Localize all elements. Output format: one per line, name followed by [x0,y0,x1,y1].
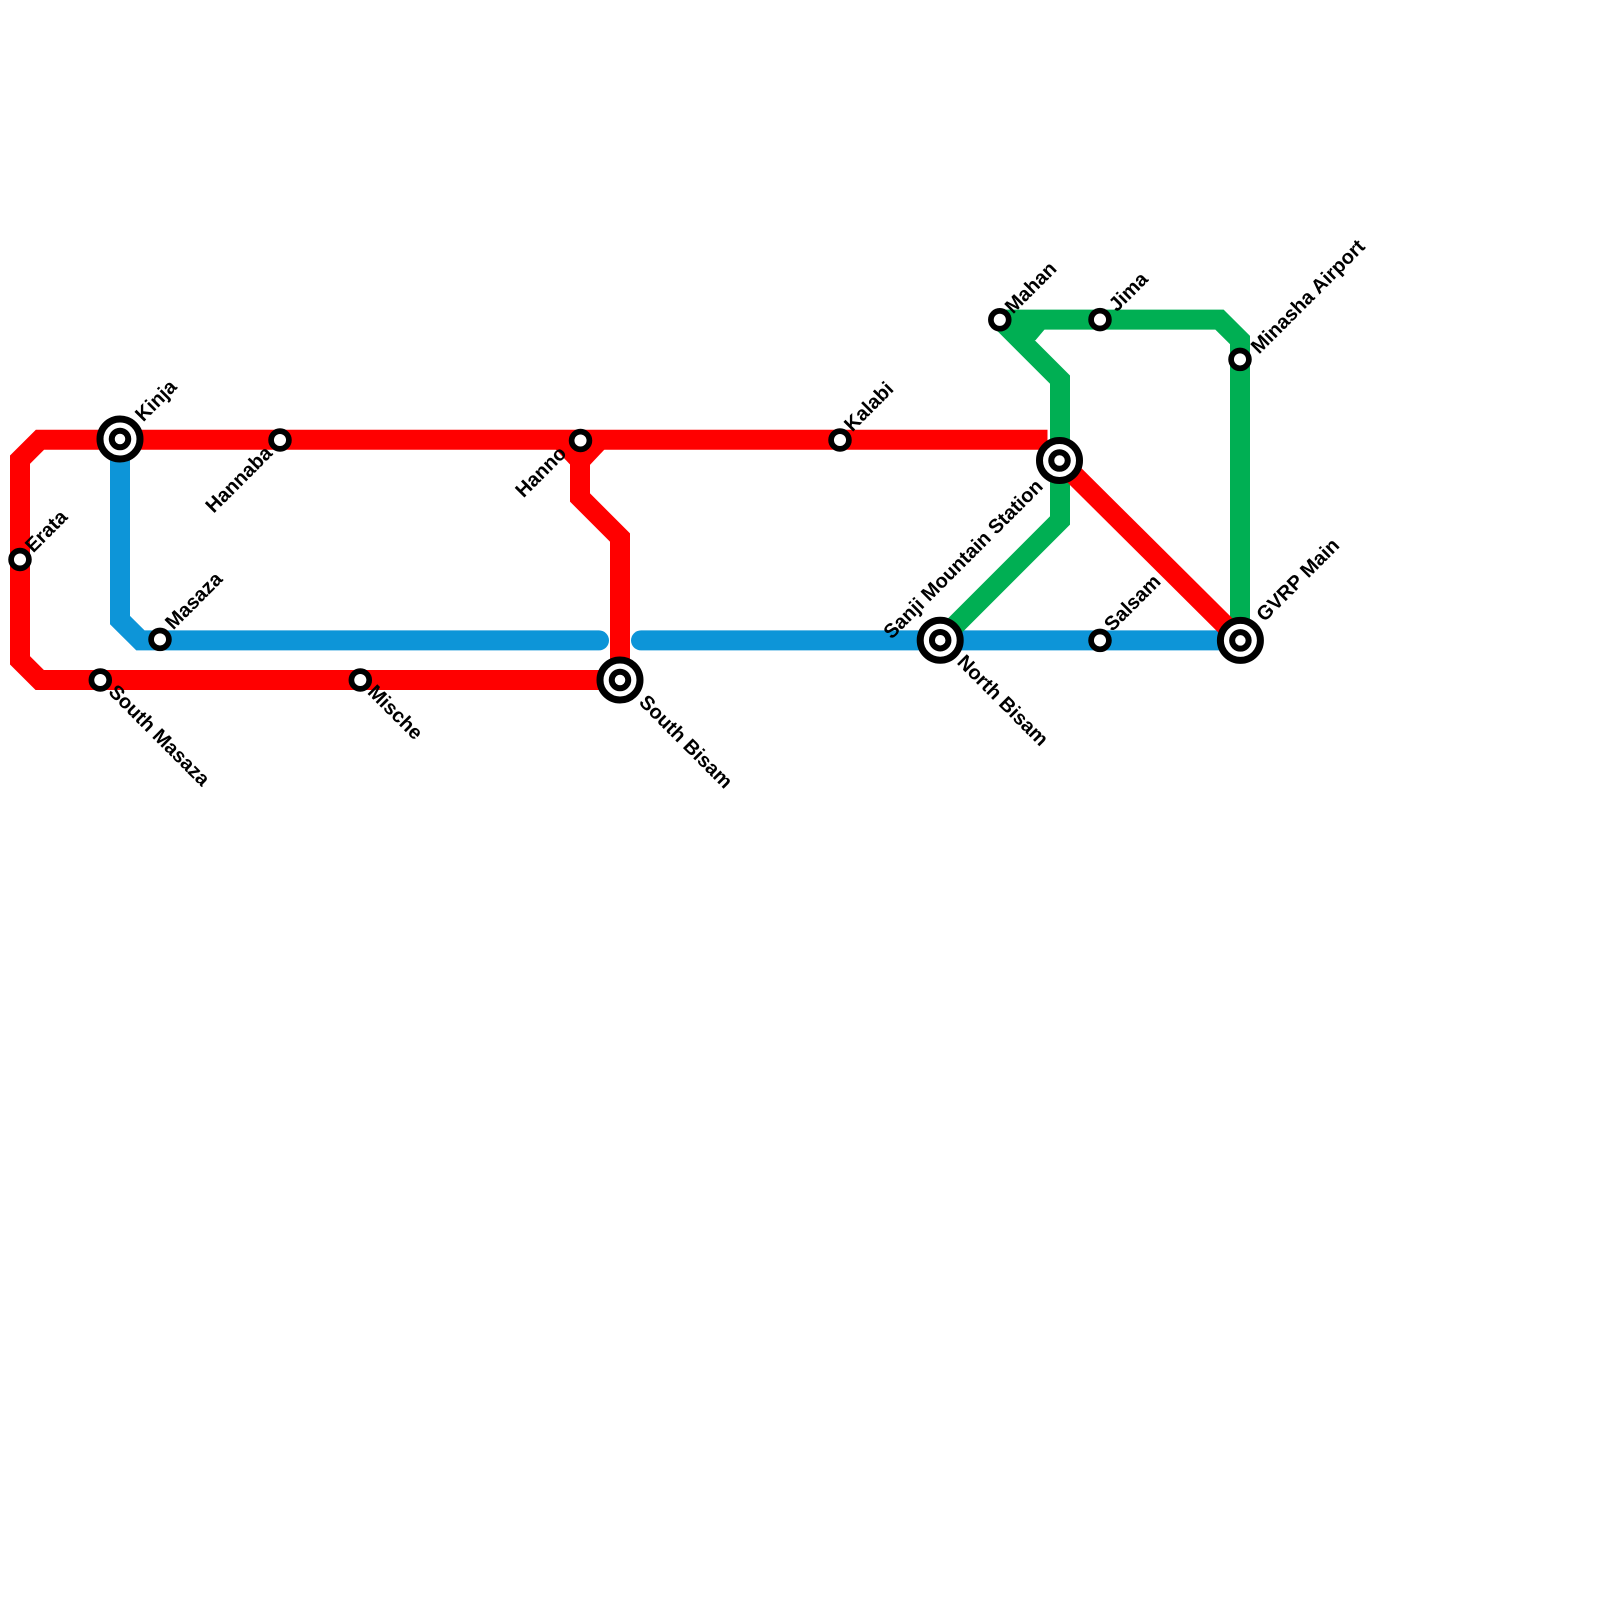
red line: top horizontal, left loop, bottom to South Bisam [20,440,1048,680]
green junction wedge at Mahan [1022,329,1045,341]
station Minasha Airport [1231,351,1249,369]
station Masaza [151,631,169,649]
red junction diamond wedge at Hanno [555,449,605,476]
station Kalabi [831,431,849,449]
red diagonal Sanji Mountain to GVRP Main [1060,461,1241,641]
interchange GVRP Main [1220,620,1260,660]
blue line: South Bisam to GVRP Main [641,630,1240,650]
station Jima [1091,311,1109,329]
station Salsam [1091,632,1109,650]
station Hannaba [271,431,289,449]
interchange South Bisam [600,660,640,700]
green line: Mahan to Sanji Mountain to North Bisam [940,320,1060,641]
interchange North Bisam [920,620,960,660]
red branch Hanno to South Bisam [580,440,620,680]
interchange Kinja [100,419,140,459]
blue line: Kinja via Masaza to South Bisam [120,440,599,640]
interchange Sanji Mountain Station [1040,441,1080,481]
station Mische [351,671,369,689]
station Hanno [572,432,590,450]
station Erata [11,551,29,569]
station South Masaza [91,671,109,689]
station Mahan [991,311,1009,329]
green line: Mahan to Jima to Minasha Airport to GVRP Main [1000,320,1240,640]
